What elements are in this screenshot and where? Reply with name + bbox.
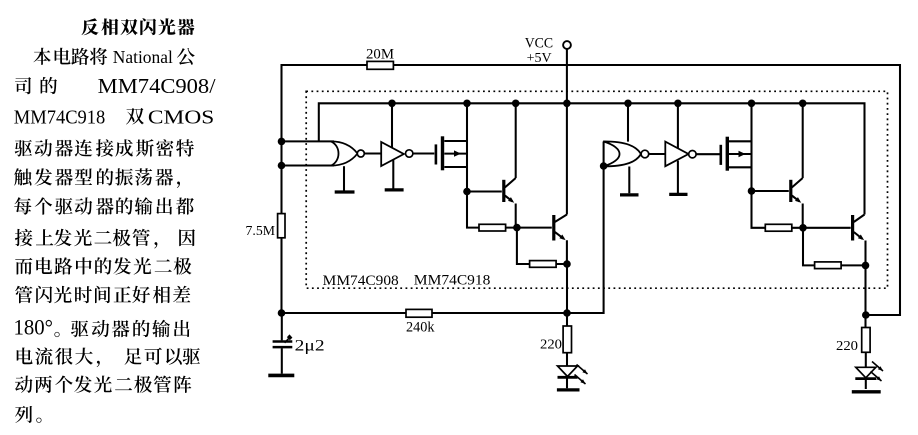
svg-text:CMOS: CMOS — [148, 107, 214, 129]
svg-text:20M: 20M — [366, 47, 394, 63]
svg-text:220: 220 — [836, 339, 858, 354]
svg-text:+5V: +5V — [527, 50, 552, 65]
svg-text:7.5M: 7.5M — [246, 224, 276, 239]
svg-text:220: 220 — [540, 338, 562, 353]
svg-text:National: National — [113, 47, 173, 67]
svg-text:MM74C918: MM74C918 — [14, 107, 106, 129]
svg-text:240k: 240k — [406, 320, 435, 336]
svg-text:2μ2: 2μ2 — [295, 338, 325, 355]
svg-text:MM74C908/: MM74C908/ — [98, 74, 216, 98]
svg-text:180°: 180° — [14, 315, 54, 340]
svg-text:MM74C918: MM74C918 — [414, 273, 491, 289]
svg-text:MM74C908: MM74C908 — [323, 273, 399, 289]
